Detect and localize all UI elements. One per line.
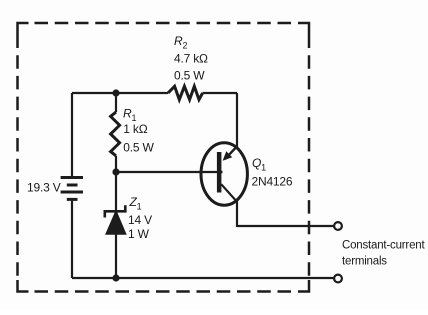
wire base [116,171,218,173]
dashed enclosure border [18,23,310,292]
wire zener bottom lead [115,234,117,278]
wire R1 top lead [115,93,117,112]
transistor Q1 emitter arrowhead [223,151,233,161]
resistor R2 [168,86,203,99]
node dot base junction [112,168,119,175]
wire top rail left [72,92,168,94]
wire bottom rail [72,277,334,279]
svg-text:19.3 V: 19.3 V [27,181,61,195]
svg-text:4.7 kΩ: 4.7 kΩ [174,51,208,65]
terminal lower [334,275,342,283]
svg-text:14 V: 14 V [128,213,152,227]
transistor Q1 body [201,143,247,205]
wire emitter drop [236,93,238,148]
transistor Q1 base bar [217,152,222,193]
wire battery bottom [71,201,73,278]
svg-text:R2: R2 [174,34,187,51]
svg-text:0.5 W: 0.5 W [174,68,205,82]
svg-text:Q1: Q1 [252,156,266,173]
node dot top [112,89,119,96]
wire top rail right [203,92,237,94]
svg-text:R1: R1 [123,107,136,124]
node dot bottom [112,274,119,281]
wire zener top lead [115,172,117,211]
svg-text:0.5 W: 0.5 W [123,140,154,154]
zener diode Z1 [105,205,126,234]
transistor Q1 emitter [221,146,237,172]
svg-text:Z1: Z1 [129,195,142,212]
wire battery top [71,93,73,176]
svg-text:1 W: 1 W [128,227,150,241]
svg-text:2N4126: 2N4126 [252,175,293,189]
resistor R1 [111,112,120,156]
svg-text:terminals: terminals [342,255,387,267]
svg-text:1 kΩ: 1 kΩ [123,122,147,136]
wire R1 bottom lead [115,156,117,172]
transistor Q1 collector [221,184,237,227]
battery 19.3 V [61,178,83,200]
wire collector to terminal [237,225,334,227]
terminal upper [334,222,342,230]
svg-text:Constant-current: Constant-current [342,239,425,251]
